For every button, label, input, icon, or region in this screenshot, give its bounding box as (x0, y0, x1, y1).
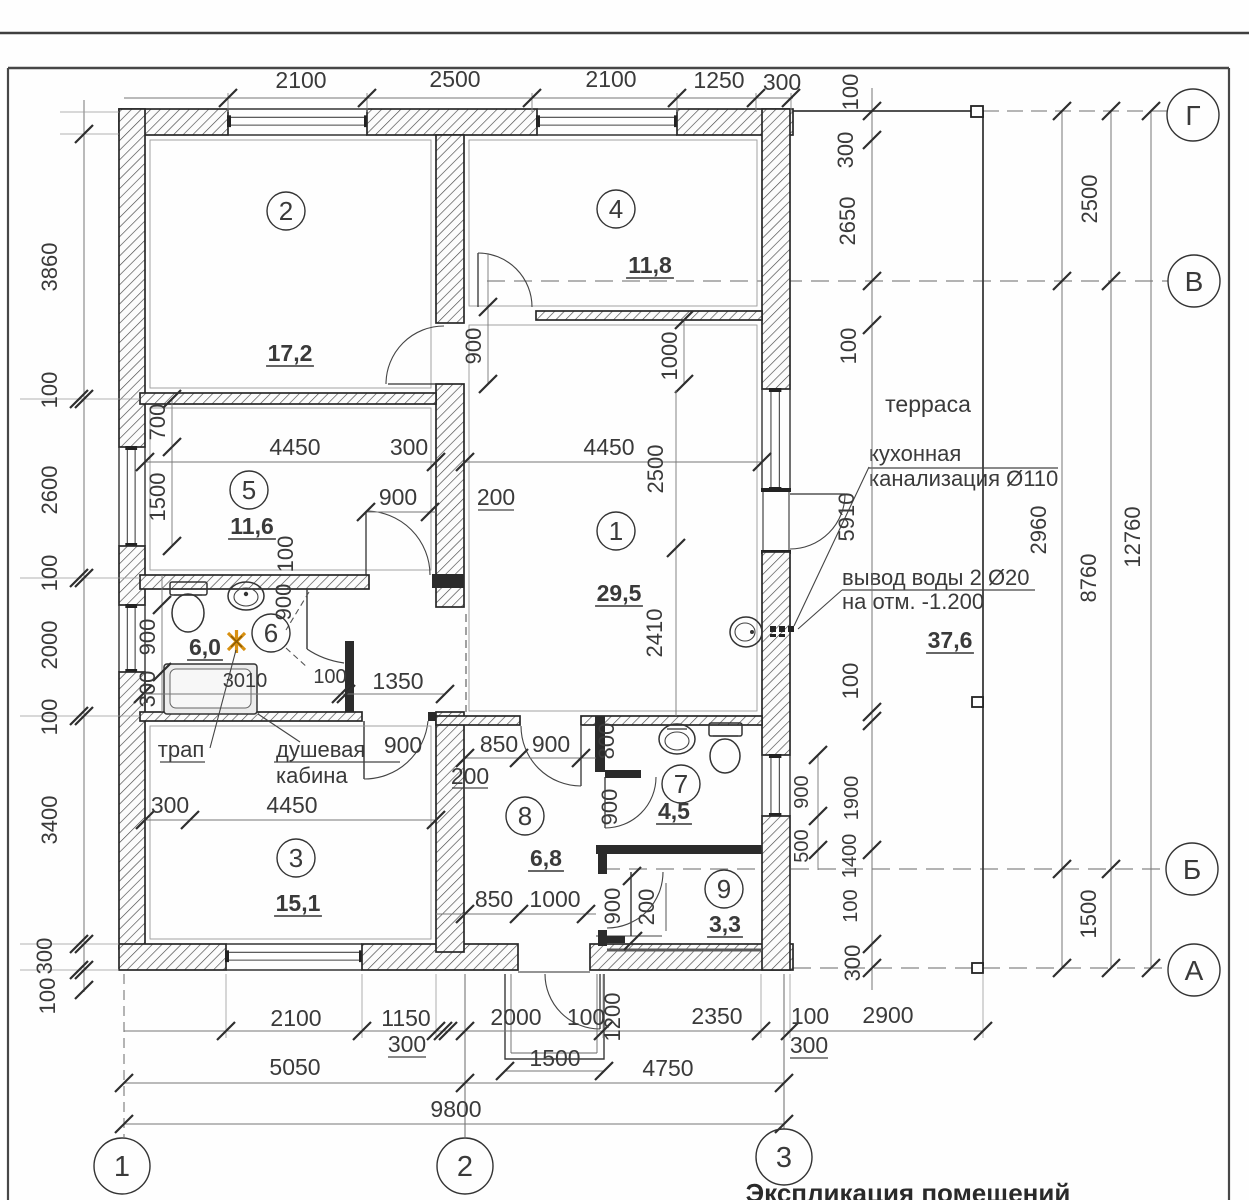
svg-text:1350: 1350 (372, 668, 423, 694)
svg-text:300: 300 (763, 69, 801, 95)
window right 2 (761, 755, 763, 816)
door room2 leaf (388, 383, 444, 385)
svg-text:700: 700 (145, 404, 170, 441)
window right 1 (761, 389, 763, 490)
room circle 3 (277, 839, 315, 877)
svg-text:4750: 4750 (642, 1055, 693, 1081)
svg-text:2900: 2900 (862, 1002, 913, 1028)
svg-text:5: 5 (242, 475, 256, 505)
door entrance arc (545, 974, 600, 1029)
door entrance leaf (599, 974, 601, 1029)
window left 900 (118, 605, 120, 672)
dim line room1 top (465, 461, 762, 463)
terrace post bottom (972, 963, 983, 973)
door terrace jamb lines (762, 490, 764, 552)
svg-text:100: 100 (836, 328, 861, 365)
svg-text:300: 300 (388, 1031, 426, 1057)
svg-text:1: 1 (114, 1151, 130, 1183)
svg-text:2600: 2600 (37, 466, 62, 515)
svg-text:3400: 3400 (37, 796, 62, 845)
svg-text:100: 100 (37, 699, 62, 736)
left wall seg1 (119, 109, 145, 447)
svg-text:4,5: 4,5 (658, 798, 690, 824)
top wall seg1 (119, 109, 228, 135)
grid bubble 2 (437, 1138, 493, 1194)
svg-text:900: 900 (461, 328, 486, 365)
svg-text:1000: 1000 (529, 886, 580, 912)
svg-text:6,0: 6,0 (189, 634, 221, 660)
washbasin room7 (659, 724, 695, 754)
porch outline (505, 974, 604, 1059)
room circle 1 (597, 512, 635, 550)
svg-text:1500: 1500 (529, 1045, 580, 1071)
room8 top dim line (465, 757, 596, 759)
grid bubble В (1168, 255, 1220, 307)
svg-text:душевая: душевая (276, 737, 365, 762)
svg-text:7: 7 (674, 769, 688, 799)
room circle 8 (506, 797, 544, 835)
porch inner lines (510, 974, 512, 1053)
svg-text:15,1: 15,1 (276, 890, 321, 916)
svg-text:Экспликация помещений: Экспликация помещений (746, 1178, 1071, 1200)
door room8 leaf (580, 726, 582, 786)
svg-text:2100: 2100 (275, 67, 326, 93)
left wall seg2 (119, 546, 145, 605)
underline вывод (842, 589, 1035, 591)
window left 1500 (118, 447, 120, 546)
right chain x1111 (1110, 111, 1112, 968)
svg-text:1400: 1400 (839, 834, 861, 879)
svg-text:3010: 3010 (223, 670, 268, 692)
terrace post mid (972, 697, 983, 707)
water outlet symbol (770, 626, 776, 632)
door room5 arc (366, 511, 430, 575)
door room8 arc (521, 726, 581, 786)
svg-text:2500: 2500 (1077, 175, 1102, 224)
room4 door dim line (487, 253, 489, 384)
left dim ext lines (20, 398, 140, 400)
left dim ticks (75, 125, 93, 143)
room9 floor edge (607, 949, 762, 952)
right wall seg2 (762, 552, 790, 755)
page top rule (0, 32, 1249, 35)
bottom dim row C (124, 1123, 784, 1125)
svg-text:900: 900 (532, 731, 570, 757)
row A ticks (217, 1022, 235, 1040)
door terrace leaf (790, 493, 845, 495)
grid line Г (983, 110, 1167, 112)
shower tray (164, 664, 257, 714)
room circle 4 (597, 190, 635, 228)
dim line room5 (145, 461, 436, 463)
wall W8 vestibule south (605, 770, 641, 778)
svg-text:А: А (1185, 955, 1204, 986)
washbasin room6 (228, 582, 264, 610)
svg-text:1500: 1500 (1076, 890, 1101, 939)
svg-text:300: 300 (790, 1032, 828, 1058)
drawing frame top (8, 67, 1229, 70)
wall W10 rooms 7/9 (596, 845, 762, 854)
axis 1 line (123, 974, 125, 1137)
svg-text:300: 300 (840, 945, 865, 982)
room2 inner face lines (150, 140, 431, 388)
room1 dim ticks (456, 453, 474, 471)
grid bubble 1 (94, 1138, 150, 1194)
leader кухонная (794, 467, 869, 626)
svg-text:900: 900 (379, 484, 417, 510)
leader душевая (258, 714, 300, 742)
svg-text:850: 850 (480, 731, 518, 757)
door room3 leaf (363, 721, 365, 779)
wall W9 room9 west lower (598, 930, 607, 946)
svg-text:трап: трап (158, 737, 204, 762)
svg-text:2960: 2960 (1026, 506, 1051, 555)
svg-text:2000: 2000 (490, 1004, 541, 1030)
x1062 ticks (1053, 102, 1071, 120)
svg-text:6: 6 (264, 618, 278, 648)
right wall seg3 (762, 816, 790, 970)
room circle 2 (267, 192, 305, 230)
bottom dim row A (124, 1030, 983, 1032)
svg-text:3: 3 (289, 843, 303, 873)
svg-text:100: 100 (273, 536, 298, 573)
door room4 arc (478, 253, 532, 307)
row C ticks (115, 1115, 133, 1133)
svg-text:200: 200 (634, 889, 659, 926)
door room4 leaf (477, 253, 479, 307)
wall W6 rooms 8 top seg2 (581, 716, 762, 725)
svg-text:17,2: 17,2 (268, 340, 313, 366)
window dim line left a (171, 399, 173, 546)
svg-text:8760: 8760 (1076, 554, 1101, 603)
svg-text:11,8: 11,8 (628, 252, 672, 278)
window dim line left b (161, 575, 163, 712)
top wall seg2 (367, 109, 537, 135)
axis 2 line (464, 974, 466, 1137)
svg-text:100: 100 (838, 663, 863, 700)
bottom wall seg1 (119, 944, 226, 970)
wall W4 rooms 5/6 (140, 575, 369, 589)
svg-text:2100: 2100 (585, 66, 636, 92)
svg-text:29,5: 29,5 (597, 580, 642, 606)
bottom dim row B (124, 1082, 784, 1084)
top wall seg3 (677, 109, 793, 135)
svg-text:1200: 1200 (600, 993, 625, 1042)
room9 door sill (596, 935, 662, 937)
grid bubble А (1168, 944, 1220, 996)
corridor ticks (134, 685, 152, 703)
wall W1 lower (rooms 3/8) (436, 712, 464, 952)
svg-text:300: 300 (151, 792, 189, 818)
bottom wall seg2 (362, 944, 518, 970)
svg-text:кабина: кабина (276, 763, 348, 788)
door room5 leaf (365, 511, 367, 575)
wall W2 rooms 2/5 (140, 393, 436, 404)
svg-text:3860: 3860 (37, 243, 62, 292)
door room2 arc (386, 326, 444, 384)
svg-text:100: 100 (37, 372, 62, 409)
wall W5 room6 east (345, 641, 354, 716)
svg-text:1150: 1150 (381, 1005, 430, 1031)
svg-text:850: 850 (475, 886, 513, 912)
top dim line (124, 97, 793, 99)
right chain x1151 (1150, 111, 1152, 968)
left dim line (83, 100, 85, 992)
svg-text:300: 300 (32, 938, 57, 975)
svg-text:1900: 1900 (841, 776, 863, 821)
svg-text:2100: 2100 (270, 1005, 321, 1031)
svg-text:9800: 9800 (430, 1096, 481, 1122)
svg-text:2350: 2350 (691, 1003, 742, 1029)
window W2 top 2100 (537, 108, 677, 110)
svg-text:900: 900 (597, 789, 622, 826)
svg-text:100: 100 (840, 889, 862, 922)
grid line В (487, 280, 1168, 282)
terrace post top (971, 106, 983, 117)
terrace outline (793, 111, 983, 966)
svg-text:канализация Ø110: канализация Ø110 (869, 466, 1058, 491)
wall W6 rooms 8 top seg1 (436, 716, 520, 725)
svg-text:800: 800 (594, 723, 619, 760)
door room3 arc (364, 721, 428, 779)
room4 inner face lines (469, 140, 757, 306)
svg-text:900: 900 (600, 888, 625, 925)
bottom ext lines (225, 974, 227, 1038)
entrance threshold (518, 971, 590, 973)
leader вывод (798, 590, 842, 629)
svg-text:4450: 4450 (269, 434, 320, 460)
svg-text:2650: 2650 (835, 197, 860, 246)
x872 ticks (863, 102, 881, 120)
svg-text:12760: 12760 (1120, 506, 1145, 567)
door kitchen dashed leaf (465, 614, 467, 712)
x1111 ticks (1102, 102, 1120, 120)
wall W4 stub (432, 574, 464, 588)
door room7 leaf (604, 777, 606, 828)
svg-text:5910: 5910 (834, 493, 859, 542)
wall W9 room9 west upper (598, 854, 607, 874)
x1151 ticks (1142, 102, 1160, 120)
svg-text:6,8: 6,8 (530, 845, 562, 871)
svg-text:2: 2 (279, 196, 293, 226)
window dim ticks b (153, 596, 171, 614)
svg-text:5050: 5050 (269, 1054, 320, 1080)
wall W1 upper (rooms 2/4) (436, 135, 464, 323)
door terrace arc (790, 494, 845, 549)
corridor dim line (143, 693, 445, 695)
svg-text:4450: 4450 (266, 792, 317, 818)
svg-text:8: 8 (518, 801, 532, 831)
room circle 7 (662, 765, 700, 803)
underline трап/душевая (160, 761, 205, 763)
leader трап (210, 650, 236, 748)
room circle 6 (252, 614, 290, 652)
porch dim line (505, 1070, 604, 1072)
svg-text:100: 100 (313, 666, 346, 688)
room3 dim line (145, 819, 436, 821)
wall W3 rooms 4/1 (536, 311, 762, 320)
grid bubble Б (1166, 843, 1218, 895)
svg-text:4: 4 (609, 194, 623, 224)
door5 dim line (366, 511, 436, 513)
svg-text:2500: 2500 (429, 66, 480, 92)
axis 3 line (783, 974, 785, 1129)
right chain x872 (871, 88, 873, 990)
svg-text:500: 500 (791, 829, 813, 862)
svg-text:2500: 2500 (643, 445, 668, 494)
room8 bottom dim line (436, 913, 596, 915)
svg-text:100: 100 (791, 1003, 829, 1029)
drawing frame right (1228, 68, 1230, 1200)
svg-text:2: 2 (457, 1151, 473, 1183)
svg-text:900: 900 (135, 619, 160, 656)
right chain x818 (817, 755, 819, 870)
svg-text:4450: 4450 (583, 434, 634, 460)
room1 inner face lines (469, 325, 757, 711)
door room9 arc (607, 872, 663, 928)
svg-text:Б: Б (1183, 854, 1201, 885)
svg-text:900: 900 (791, 775, 813, 808)
right wall seg1 (762, 109, 790, 389)
svg-text:300: 300 (390, 434, 428, 460)
r1 dim line (675, 390, 677, 716)
window W1 top 2100 (228, 108, 367, 110)
svg-text:100: 100 (838, 74, 863, 111)
svg-text:1: 1 (609, 516, 623, 546)
wall W1 middle (rooms 5/1) (436, 384, 464, 607)
svg-text:1500: 1500 (145, 473, 170, 522)
svg-text:11,6: 11,6 (230, 513, 274, 539)
svg-text:37,6: 37,6 (928, 627, 973, 653)
row B ticks (115, 1074, 133, 1092)
svg-text:3,3: 3,3 (709, 911, 741, 937)
grid line А (793, 967, 1168, 969)
r4 dim line (683, 320, 685, 384)
floor drain star (228, 630, 245, 653)
svg-text:200: 200 (477, 484, 515, 510)
svg-text:Г: Г (1185, 100, 1200, 131)
left wall seg3 (119, 672, 145, 949)
top dim ext lines (227, 93, 229, 112)
svg-text:1250: 1250 (693, 67, 744, 93)
svg-text:100: 100 (37, 555, 62, 592)
svg-text:900: 900 (384, 732, 422, 758)
svg-text:100: 100 (35, 978, 60, 1015)
grid line Б (602, 868, 1166, 870)
room3 inner face lines (150, 726, 431, 939)
svg-text:2000: 2000 (37, 621, 62, 670)
svg-text:3: 3 (776, 1142, 792, 1174)
right chain x1062 (1061, 111, 1063, 968)
svg-text:терраса: терраса (885, 391, 971, 417)
wall W11 rooms 6/3 (140, 712, 362, 721)
svg-text:В: В (1185, 266, 1204, 297)
door room7 arc (605, 777, 656, 828)
window dim ticks a (163, 390, 181, 408)
svg-text:кухонная: кухонная (869, 441, 961, 466)
svg-text:2410: 2410 (642, 609, 667, 658)
svg-text:300: 300 (833, 132, 858, 169)
svg-text:900: 900 (271, 584, 296, 621)
svg-text:на отм. -1.200: на отм. -1.200 (842, 589, 984, 614)
wall W11 stub (428, 712, 436, 721)
wall W7 vestibule (595, 716, 605, 772)
toilet room6 (170, 582, 207, 595)
top dim ticks (219, 89, 237, 107)
window bottom 2100 (226, 943, 362, 945)
drawing frame left (7, 68, 9, 1200)
svg-text:200: 200 (451, 763, 489, 789)
svg-text:1000: 1000 (657, 332, 682, 381)
room5 dim ticks (136, 453, 154, 471)
toilet room7 (709, 723, 742, 736)
bottom wall seg3 (590, 944, 793, 970)
grid bubble 3 (756, 1129, 812, 1185)
grid bubble Г (1167, 89, 1219, 141)
door room6 leaf (306, 589, 308, 649)
kitchen sink (730, 617, 762, 647)
room circle 9 (705, 870, 743, 908)
room5 inner face lines (150, 408, 431, 570)
room circle 5 (230, 471, 268, 509)
door room6 dashed swing (286, 592, 309, 630)
door room9 leaf (630, 872, 632, 936)
door room6 arc (307, 649, 344, 663)
svg-text:вывод воды 2 Ø20: вывод воды 2 Ø20 (842, 565, 1030, 590)
svg-text:9: 9 (717, 874, 731, 904)
